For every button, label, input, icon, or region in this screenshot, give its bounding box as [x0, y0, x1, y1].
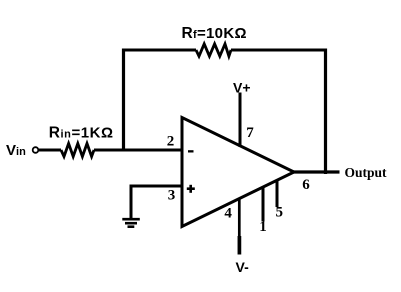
wire: Vin terminal to resistor Rin	[39, 149, 61, 152]
wire: output from pin 6	[293, 170, 340, 173]
svg-text:V+: V+	[233, 80, 251, 96]
svg-text:Output: Output	[345, 165, 388, 180]
svg-text:4: 4	[224, 206, 232, 222]
svg-text:6: 6	[302, 177, 310, 193]
svg-text:1: 1	[259, 219, 267, 235]
wire: feedback right vertical down to output	[324, 49, 327, 175]
wire: V+ supply to pin 7	[239, 93, 242, 148]
svg-text:7: 7	[246, 125, 254, 141]
svg-text:3: 3	[168, 188, 176, 204]
op-amp non-inverting input plus sign	[187, 185, 195, 193]
wire: non-inverting input (pin 3) to ground	[131, 186, 182, 219]
svg-text:Rf=10KΩ: Rf=10KΩ	[182, 25, 247, 42]
wire: feedback left vertical (junction up to top rail)	[122, 49, 125, 152]
resistor Rf=10KΩ (zigzag)	[196, 44, 231, 56]
terminal: Vin input node (open circle)	[33, 147, 39, 153]
svg-text:V-: V-	[236, 259, 250, 275]
ground symbol	[122, 219, 140, 227]
pin 5 stub	[276, 181, 279, 207]
svg-text:2: 2	[167, 133, 175, 149]
wire: pin 4 to V- supply (lower, slightly heavier section)	[238, 236, 242, 255]
svg-text:5: 5	[276, 205, 284, 221]
wire: feedback top rail, left segment	[122, 49, 196, 52]
wire: feedback top rail, right segment	[231, 49, 327, 52]
wire: Rin to inverting input (pin 2), through feedback junction	[94, 149, 182, 152]
pin 1 stub	[262, 188, 265, 222]
svg-text:Rin=1KΩ: Rin=1KΩ	[49, 125, 114, 142]
op-amp inverting input minus sign	[188, 150, 194, 152]
resistor Rin=1KΩ (zigzag)	[61, 144, 94, 157]
wire: pin 4 to V- supply (upper section)	[238, 199, 241, 238]
op-amp U1 triangle body	[182, 118, 294, 227]
